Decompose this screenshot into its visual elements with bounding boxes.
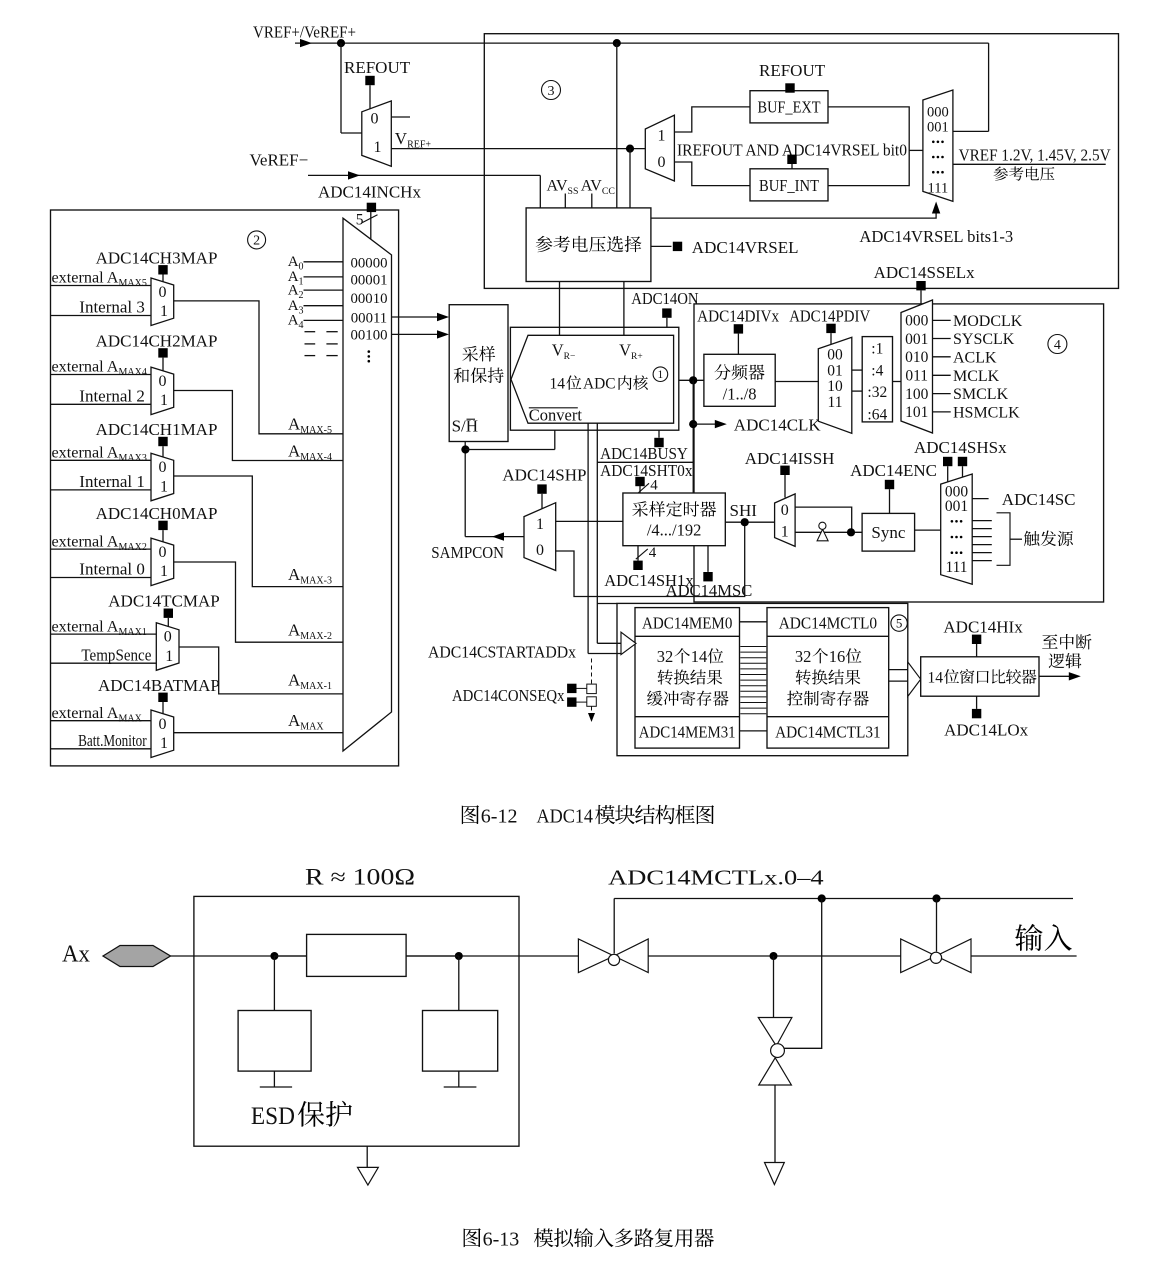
svg-text:ADC: ADC — [583, 376, 616, 393]
svg-text:14: 14 — [550, 376, 566, 393]
svg-text:ADC14SHSx: ADC14SHSx — [914, 438, 1007, 457]
svg-text:5: 5 — [356, 212, 364, 229]
svg-text:ADC14: ADC14 — [537, 806, 594, 828]
svg-text:00000: 00000 — [351, 255, 388, 271]
svg-text:001: 001 — [905, 331, 928, 348]
svg-text:1: 1 — [536, 516, 544, 533]
svg-text:0: 0 — [159, 544, 167, 561]
svg-text:ADC14MCTL31: ADC14MCTL31 — [775, 722, 881, 741]
svg-text:1: 1 — [374, 139, 382, 156]
svg-text:ADC14MEM0: ADC14MEM0 — [642, 613, 732, 632]
svg-text:1: 1 — [160, 563, 168, 580]
svg-text:16: 16 — [829, 647, 846, 666]
svg-text:REFOUT: REFOUT — [759, 61, 826, 80]
svg-text:32: 32 — [657, 647, 674, 666]
svg-text:001: 001 — [927, 120, 949, 136]
svg-text:SAMPCON: SAMPCON — [431, 543, 504, 562]
svg-text:VeREF−: VeREF− — [250, 150, 309, 169]
svg-text:TempSence: TempSence — [81, 645, 151, 664]
svg-text:000: 000 — [927, 104, 949, 120]
svg-text:00010: 00010 — [351, 291, 388, 307]
svg-text:ADC14PDIV: ADC14PDIV — [789, 307, 871, 326]
svg-text:1: 1 — [658, 369, 664, 381]
svg-text:32: 32 — [795, 647, 812, 666]
svg-text:MCLK: MCLK — [953, 368, 1000, 385]
svg-text:ADC14MCTLx.0–4: ADC14MCTLx.0–4 — [608, 866, 824, 890]
svg-text:1: 1 — [165, 648, 173, 665]
svg-text:0: 0 — [781, 502, 789, 519]
svg-text:/4.../192: /4.../192 — [647, 520, 702, 539]
svg-text:Convert: Convert — [529, 406, 583, 425]
svg-text:00: 00 — [827, 347, 843, 364]
svg-text:6-12: 6-12 — [481, 806, 518, 828]
svg-text:MODCLK: MODCLK — [953, 313, 1023, 330]
svg-text:2: 2 — [253, 234, 260, 249]
svg-text:ADC14LOx: ADC14LOx — [944, 721, 1029, 740]
svg-text:Internal 0: Internal 0 — [79, 560, 145, 579]
svg-text:ADC14MCTL0: ADC14MCTL0 — [779, 613, 877, 632]
svg-text:ADC14INCHx: ADC14INCHx — [318, 183, 421, 202]
svg-text:ADC14CONSEQx: ADC14CONSEQx — [452, 686, 565, 705]
svg-text:1: 1 — [658, 128, 666, 145]
svg-text:ADC14ISSH: ADC14ISSH — [745, 449, 835, 468]
svg-text:4: 4 — [650, 478, 658, 494]
svg-text:0: 0 — [159, 459, 167, 476]
svg-text:ADC14DIVx: ADC14DIVx — [697, 307, 779, 326]
svg-text:HSMCLK: HSMCLK — [953, 405, 1020, 422]
svg-text:111: 111 — [945, 559, 967, 576]
svg-text:1: 1 — [160, 303, 168, 320]
svg-text:ADC14CSTARTADDx: ADC14CSTARTADDx — [428, 642, 577, 661]
svg-text:ADC14TCMAP: ADC14TCMAP — [108, 592, 219, 611]
svg-text:/1../8: /1../8 — [723, 384, 757, 403]
svg-text:00001: 00001 — [351, 273, 388, 289]
svg-text:REFOUT: REFOUT — [344, 58, 411, 77]
svg-text::64: :64 — [867, 407, 887, 424]
svg-text:ADC14MEM31: ADC14MEM31 — [639, 722, 736, 741]
svg-text:ADC14CH2MAP: ADC14CH2MAP — [96, 331, 218, 350]
svg-text:1: 1 — [160, 735, 168, 752]
svg-text:ADC14VRSEL bits1-3: ADC14VRSEL bits1-3 — [859, 227, 1013, 246]
svg-text:0: 0 — [159, 373, 167, 390]
svg-text:Ax: Ax — [62, 942, 90, 968]
svg-text:14: 14 — [928, 670, 944, 687]
svg-text:SHI: SHI — [730, 501, 758, 520]
svg-text:ADC14SSELx: ADC14SSELx — [874, 263, 976, 282]
svg-text:ESD: ESD — [251, 1103, 295, 1130]
svg-text:14: 14 — [691, 647, 708, 666]
svg-text:ADC14SC: ADC14SC — [1002, 490, 1076, 509]
svg-text:0: 0 — [159, 284, 167, 301]
svg-text:ADC14SHP: ADC14SHP — [502, 466, 586, 485]
svg-text:4: 4 — [1054, 338, 1061, 353]
svg-text::1: :1 — [871, 340, 883, 357]
svg-text:R ≈ 100Ω: R ≈ 100Ω — [305, 865, 415, 890]
svg-text:ADC14CH1MAP: ADC14CH1MAP — [96, 420, 218, 439]
svg-text:SMCLK: SMCLK — [953, 386, 1009, 403]
svg-text:SYSCLK: SYSCLK — [953, 331, 1015, 348]
svg-text:0: 0 — [536, 542, 544, 559]
svg-text:000: 000 — [905, 313, 929, 330]
svg-text:00011: 00011 — [351, 311, 387, 327]
svg-text:010: 010 — [905, 349, 929, 366]
svg-text::4: :4 — [871, 362, 883, 379]
svg-text:111: 111 — [928, 180, 949, 196]
svg-text:ADC14CH3MAP: ADC14CH3MAP — [96, 248, 218, 267]
svg-text:Internal 1: Internal 1 — [79, 472, 145, 491]
svg-text:011: 011 — [905, 368, 928, 385]
svg-text:ACLK: ACLK — [953, 349, 997, 366]
svg-text:001: 001 — [945, 498, 968, 515]
svg-text:00100: 00100 — [351, 327, 388, 343]
svg-text:Batt.Monitor: Batt.Monitor — [78, 731, 147, 750]
svg-text:1: 1 — [160, 478, 168, 495]
svg-text:Internal 2: Internal 2 — [79, 387, 145, 406]
svg-text:ADC14CH0MAP: ADC14CH0MAP — [96, 504, 218, 523]
svg-text:BUF_INT: BUF_INT — [759, 176, 819, 195]
svg-text:0: 0 — [371, 111, 379, 128]
svg-text:ADC14MSC: ADC14MSC — [666, 581, 753, 600]
svg-text:VREF+/VeREF+: VREF+/VeREF+ — [253, 23, 356, 42]
svg-text:Internal 3: Internal 3 — [79, 298, 145, 317]
svg-text:ADC14ON: ADC14ON — [631, 289, 698, 308]
svg-text:1: 1 — [781, 524, 789, 541]
svg-text:0: 0 — [658, 154, 666, 171]
svg-text:ADC14HIx: ADC14HIx — [943, 618, 1023, 637]
svg-text:ADC14VRSEL: ADC14VRSEL — [692, 238, 799, 257]
svg-text:1: 1 — [160, 392, 168, 409]
svg-text:0: 0 — [164, 629, 172, 646]
svg-text:0: 0 — [159, 716, 167, 733]
svg-text:VREF 1.2V, 1.45V, 2.5V: VREF 1.2V, 1.45V, 2.5V — [959, 146, 1111, 165]
svg-text:01: 01 — [827, 362, 843, 379]
svg-text:Sync: Sync — [871, 523, 905, 542]
svg-text:ADC14SHT0x: ADC14SHT0x — [600, 461, 693, 480]
svg-text:100: 100 — [905, 386, 929, 403]
svg-text:3: 3 — [548, 84, 555, 99]
svg-text::32: :32 — [867, 384, 887, 401]
svg-text:101: 101 — [905, 404, 928, 421]
svg-text:10: 10 — [827, 378, 843, 395]
svg-text:ADC14BATMAP: ADC14BATMAP — [98, 676, 220, 695]
svg-text:11: 11 — [828, 394, 843, 411]
svg-text:BUF_EXT: BUF_EXT — [758, 98, 821, 117]
svg-text:5: 5 — [896, 616, 903, 631]
svg-text:4: 4 — [649, 545, 657, 561]
svg-text:6-13: 6-13 — [483, 1229, 520, 1251]
svg-text:ADC14CLK: ADC14CLK — [734, 415, 822, 434]
svg-text:ADC14ENC: ADC14ENC — [850, 461, 937, 480]
